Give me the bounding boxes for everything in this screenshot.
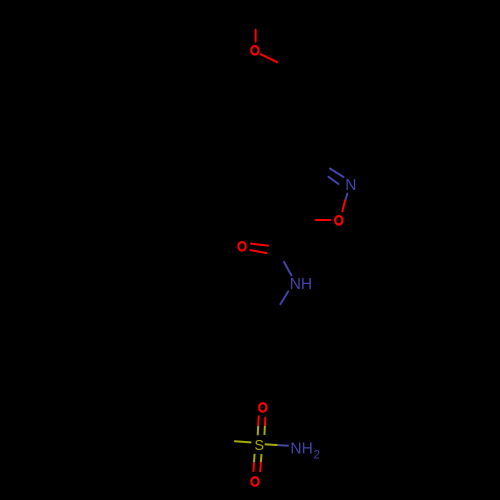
wire: isoxazole C3=N2 double bond inner line (N half, blue) [329, 177, 339, 184]
svg-text:2: 2 [314, 449, 320, 461]
wire: S=O upper double bond right line (O half, red) [264, 417, 267, 426]
wire: isoxazole N2-O1 bond (O half, red) [342, 200, 345, 211]
wire: amide C-N bond (N half, blue) [284, 262, 291, 276]
wire: isoxazole N2-O1 bond (N half, blue) [345, 194, 347, 201]
wire: S=O lower double bond left line (O half, red) [252, 462, 255, 472]
wire: methoxy O-CH3 bond (O half, red) [255, 30, 257, 42]
wire: S=O lower double bond left line (S half, yellow) [253, 454, 256, 462]
wire: amide N-C bond (N half, blue) [280, 291, 288, 304]
svg-text:NH: NH [290, 276, 312, 293]
wire: methoxy O-phenyl bond (O half, red) [261, 54, 278, 62]
node O isoxazole [335, 216, 342, 225]
wire: S-CH3 bond (S half, yellow) [235, 441, 251, 442]
wire: S=O upper double bond left line (O half, red) [257, 416, 260, 426]
wire: isoxazole C3=N2 double bond outer line (N half, blue) [330, 169, 344, 178]
svg-text:NH: NH [290, 440, 312, 457]
svg-text:N: N [345, 177, 356, 194]
svg-text:S: S [254, 438, 264, 454]
wire: S=O lower double bond right line (O half, red) [259, 462, 262, 472]
wire: S-N bond (S half, yellow) [265, 443, 278, 446]
wire: S=O upper double bond right line (S half, yellow) [263, 426, 266, 435]
node O methoxy [251, 46, 258, 55]
node O sulfonyl lower [251, 477, 258, 486]
wire: isoxazole O1-C5 bond (O half, red) [316, 219, 331, 221]
wire: S-N bond (N half, blue) [278, 444, 289, 447]
wire: C=O double bond upper line (O half, red) [251, 244, 268, 246]
wire: S=O upper double bond left line (S half, yellow) [257, 426, 260, 436]
wire: S=O lower double bond right line (S half, yellow) [260, 454, 263, 462]
node O carbonyl [238, 242, 245, 251]
wire: C=O double bond lower line (O half, red) [250, 250, 266, 253]
node O sulfonyl upper [259, 403, 266, 412]
